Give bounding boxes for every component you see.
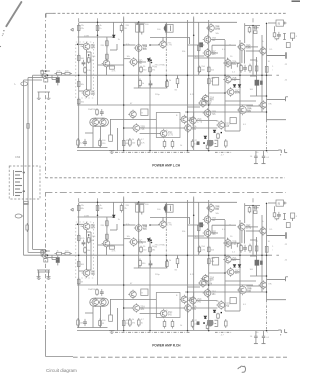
resistor R26 L (208, 77, 211, 86)
resistor R18 R (139, 259, 142, 268)
capacitor C17 below terminal R (277, 212, 281, 219)
resistor R34 R (99, 319, 102, 328)
bracket component G L (215, 139, 218, 141)
resistor R2 L (96, 24, 99, 33)
transistor Q10 driver R (159, 309, 167, 318)
wire column 13 R (261, 215, 263, 292)
capacitor C8 bracket R (236, 243, 238, 247)
wire companion input L (46, 77, 58, 79)
wire bottom supply rail L (77, 150, 279, 152)
resistor R13 L (106, 39, 109, 48)
page number squiggle body (240, 366, 245, 372)
wire link ae R (110, 229, 117, 231)
ferrite bead L1 (21, 82, 28, 86)
component TH1 thermal R (230, 298, 236, 304)
component dark small L (197, 141, 200, 145)
wire link w R (225, 310, 240, 312)
dual transistor Q27 right L (98, 118, 106, 127)
wire link e L (150, 44, 159, 46)
wire x117 R (117, 308, 119, 331)
wire x198 R (198, 202, 200, 255)
resistor R13b R (106, 232, 109, 241)
resistor R8 L (77, 54, 80, 63)
resistor R41 below rail R (177, 255, 179, 258)
node input junction R (47, 254, 49, 256)
wire cluster rail L (245, 25, 260, 27)
wire column 1 R (78, 203, 80, 328)
node CN3 pin dot upper (23, 172, 25, 174)
wire link q L (246, 105, 260, 107)
wire link k L (140, 133, 161, 135)
ground centre R (109, 329, 115, 331)
transistor Q5 L (134, 43, 142, 52)
capacitor C3 plates L (164, 25, 167, 32)
node Q2 base dot R (77, 224, 79, 226)
transistor Q23 R (226, 267, 234, 276)
diode D1 bias L (147, 59, 150, 62)
bracket cluster top right R (284, 214, 286, 220)
capacitor C12 zobel R (263, 331, 265, 337)
wire input horizontal 1 (24, 79, 43, 81)
wire link i R (124, 307, 133, 309)
component K1 box L (141, 109, 148, 115)
transistor Q23 L (226, 87, 234, 96)
wire pair through CN3 down 2 (27, 166, 29, 252)
svg-text:1775: 1775 (138, 243, 144, 245)
component TH1 thermal L (230, 118, 236, 124)
junction dots R (78, 254, 80, 256)
transistor Q15 R (203, 288, 211, 297)
resistor R35 L (197, 44, 200, 53)
wire link e R (150, 224, 159, 226)
dual transistor Q27 package L (90, 118, 109, 126)
resistor R15 R (122, 319, 125, 328)
wire output bus dash-dot L (266, 120, 268, 151)
capacitor C8 R (240, 244, 243, 253)
wire column 11 R (239, 220, 241, 293)
transistor Q1 L (206, 23, 214, 32)
transistor Q15 L (203, 108, 211, 117)
L.CH board frame top border (53, 12, 287, 14)
wire shielded pair vertical 2 (27, 78, 29, 166)
wire y58 L (194, 57, 225, 59)
svg-text:1775: 1775 (197, 121, 203, 123)
R.CH board frame bottom border solid part (45, 355, 73, 357)
diode D7 L (204, 136, 207, 139)
resistor R21 L (138, 138, 141, 147)
pen mark top-left corner (6, 2, 21, 26)
wire to right terminal R (267, 299, 287, 301)
resistor R6 input L (63, 72, 72, 75)
output terminal bracket L (267, 99, 286, 101)
terminal marks right L (278, 149, 281, 151)
capacitor C3 L (165, 24, 173, 32)
wire into R channel 2 (28, 251, 46, 253)
wire rail V+ segment a L (78, 36, 114, 38)
ground centre L (109, 149, 115, 151)
wire link af R (241, 231, 243, 243)
transistor Q16 R (188, 296, 196, 305)
diode D7 R (204, 316, 207, 319)
shield box input stage R (76, 222, 94, 278)
transistor Q26 output L (259, 100, 267, 109)
ground symbol left 1 (37, 275, 41, 278)
resistor R40 below terminal R (274, 206, 276, 211)
wire link l R (165, 202, 167, 226)
capacitor C3 plates R (164, 205, 167, 212)
wire companion input R (46, 257, 58, 259)
transistor Q1 R (206, 203, 214, 212)
resistor R32 above dual L (96, 108, 99, 116)
capacitor C2 R (140, 205, 144, 213)
transistor Q6 R (129, 237, 137, 246)
transistor Q26 output R (259, 280, 267, 289)
transistor Q19 L (203, 48, 211, 57)
capacitor C14 above dual L (100, 109, 104, 116)
wire mid rail stub R (276, 254, 279, 256)
component VR1 L (109, 135, 113, 141)
input filter parts R (41, 250, 44, 255)
transistor Q28 filled blob L (207, 140, 214, 147)
transistor Q20 R (223, 238, 231, 247)
capacitor C5 input coupling L (55, 72, 64, 75)
transistor Q9 L (132, 123, 140, 132)
wire column 5 R (149, 237, 151, 330)
capacitor C5 input coupling R (55, 252, 64, 255)
diode D9 dark L (113, 35, 116, 38)
transistor Q21 L (237, 42, 245, 51)
wire link s R (191, 307, 217, 309)
capacitor C7 L (149, 80, 153, 87)
wire pair through CN3 down 3 (32, 166, 34, 249)
diode D6 R (238, 265, 241, 268)
wire dual left leg L (92, 126, 94, 147)
wire link m L (188, 44, 205, 46)
resistor R38 R (217, 313, 220, 320)
wire to right terminal L (267, 119, 287, 121)
resistor R41 below rail L (177, 75, 179, 78)
capacitor C3 R (165, 204, 173, 212)
wire Q21 emitter R (243, 230, 245, 244)
wire column 2 L (97, 22, 99, 75)
resistor R37 L (171, 140, 174, 149)
transistor Q2 diff pair L (82, 42, 90, 51)
wire column 4 R (138, 202, 140, 268)
capacitor C1 R (136, 205, 140, 213)
capacitor C16 dark L (199, 42, 203, 47)
resistor R34 L (99, 139, 102, 148)
resistor R13b L (106, 52, 109, 61)
capacitor C10 L (243, 65, 247, 72)
input jack J1 L (43, 74, 48, 79)
wire cluster rail R (245, 205, 260, 207)
connector CN3 box (9, 166, 40, 199)
wire x198 L (198, 22, 200, 75)
wire top supply rail R (79, 201, 237, 203)
capacitor C17 below terminal L (277, 32, 281, 39)
pen mark dots (0, 30, 5, 47)
ground bus bar (37, 269, 50, 271)
wire rail V+ segment b L (212, 44, 236, 46)
ground input shield R (38, 271, 51, 273)
connector CN3 pin list bracket (13, 170, 15, 196)
resistor R5 L (254, 31, 257, 34)
diode D10 L (213, 130, 216, 133)
transistor Q8 R (128, 290, 136, 299)
dual transistor Q27 left R (91, 298, 99, 307)
wire link ag R (246, 226, 258, 228)
ground bus legs (38, 270, 40, 275)
diode D6 L (238, 85, 241, 88)
wire output rail L (250, 95, 267, 97)
resistor R17 emitter L (149, 66, 152, 74)
wire link f L (134, 87, 167, 89)
svg-text:Circuit diagram: Circuit diagram (46, 368, 77, 373)
capacitor C8 L (240, 64, 243, 73)
resistor R16 emitter R (140, 246, 143, 254)
transistor Q5 R (134, 223, 142, 232)
wire column 9 L (208, 20, 210, 150)
resistor R29 small R (265, 246, 268, 252)
wire link y R (188, 286, 201, 288)
capacitor C1 L (136, 25, 140, 33)
wire link k R (140, 313, 161, 315)
transistor Q6 L (129, 57, 137, 66)
transistor Q3 diff pair R (82, 268, 90, 277)
resistor R23 L (191, 139, 194, 148)
resistor R4 L (248, 26, 251, 33)
capacitor bracket L (135, 22, 145, 24)
wire link b L (86, 50, 88, 90)
capacitor C15 shunt L (56, 77, 60, 83)
wire Q21 riser R (244, 203, 246, 223)
wire dash-dot mid bottom L (115, 151, 190, 153)
wire link z L (110, 119, 112, 131)
wire mid rail stub L (276, 74, 279, 76)
resistor R10 L (87, 56, 90, 63)
wire link u R (250, 239, 257, 241)
wire column 15 R (256, 237, 258, 276)
L.CH board frame left border (44, 14, 46, 178)
capacitor C16 dark R (199, 222, 203, 227)
capacitor C11 zobel L (255, 151, 257, 157)
ground input shield L (38, 91, 51, 93)
wire column 6 L (165, 22, 167, 33)
wire output bus column L (266, 23, 268, 120)
transistor Q3 diff pair L (82, 88, 90, 97)
output terminal bracket R (267, 279, 286, 281)
transistor Q17 R (183, 303, 191, 312)
wire column 5 L (149, 57, 151, 150)
wire link q R (246, 285, 260, 287)
resistor R11 R (84, 246, 87, 253)
wire link d R (124, 224, 136, 226)
wire link x R (209, 272, 225, 274)
capacitor C7 R (149, 260, 153, 267)
output terminal bracket R (284, 202, 286, 205)
capacitor C4 L (252, 26, 258, 30)
resistor R4 R (248, 206, 251, 213)
wire y58 R (194, 237, 225, 239)
wire bottom supply rail R (77, 330, 279, 332)
output terminal box R (276, 200, 284, 206)
ferrite bead L2 (15, 214, 22, 218)
transistor Q28 filled blob R (207, 320, 214, 327)
resistor R33 L (77, 138, 80, 147)
wire link ag L (246, 46, 258, 48)
transistor Q11 driver R (180, 295, 188, 304)
resistor R6 input R (63, 252, 72, 255)
dual transistor Q27 package R (90, 298, 109, 306)
wire y45 to 150 R (142, 224, 147, 226)
output terminal bracket L (284, 22, 286, 25)
resistor R22 L (206, 144, 209, 149)
wire link m R (188, 224, 205, 226)
wire column 6 R (165, 202, 167, 213)
wire link j R (110, 298, 156, 300)
supply stubs R (78, 198, 80, 202)
capacitor C6 L (82, 60, 86, 67)
bracket component G R (215, 319, 218, 321)
wire link l L (165, 22, 167, 46)
wire link ai L (193, 112, 195, 117)
wire input horizontal 3 (33, 74, 46, 76)
component on wire small (27, 124, 29, 129)
node VAS dot R (151, 242, 153, 244)
transistor Q10 driver L (159, 129, 167, 138)
component dark small R (197, 321, 200, 325)
transistor Q4 R (102, 239, 110, 248)
svg-text:TH: TH (216, 121, 219, 123)
node CN3 pin dot lower (23, 190, 25, 192)
wire column 8 R (193, 197, 195, 331)
transistor Q2 diff pair R (82, 222, 90, 231)
resistor R14 VAS load L (110, 66, 115, 69)
capacitor C2 L (140, 25, 144, 33)
ground symbol right 1 (47, 275, 51, 278)
svg-text:D1.: D1. (270, 229, 274, 231)
wire x117 L (117, 128, 119, 151)
transistor Q13 driver R (237, 285, 246, 295)
wire link z R (110, 299, 112, 311)
component dark output bias L (255, 80, 260, 86)
transistor Q12 R (216, 300, 224, 309)
wire link d L (124, 44, 136, 46)
node diff emitter dot R (88, 234, 90, 236)
ferrite bead L2 lead (22, 215, 24, 217)
svg-text:2SA798: 2SA798 (88, 288, 96, 291)
wire link y L (188, 106, 201, 108)
wire link s L (191, 127, 217, 129)
wire column 13 L (261, 35, 263, 112)
resistor R20 R (129, 318, 132, 327)
diode D5 R (233, 265, 236, 268)
wire link i L (124, 127, 133, 129)
wire column 12 L (252, 26, 254, 76)
svg-text:1/2W: 1/2W (84, 36, 89, 38)
resistor R3 L (120, 24, 123, 33)
wire column 11 L (239, 40, 241, 113)
wire link g L (124, 58, 131, 60)
capacitor C4 R (252, 206, 258, 210)
resistor R40 below terminal L (274, 26, 276, 31)
wire column 1 L (78, 23, 80, 148)
resistor R17 emitter R (149, 246, 152, 254)
wire dual left leg R (92, 306, 94, 327)
output terminal bar L (267, 55, 286, 57)
resistor R32 above dual R (96, 288, 99, 296)
dual transistor Q27 left L (91, 118, 99, 127)
R.CH board frame left border (44, 192, 46, 330)
junction dots L (78, 74, 80, 76)
svg-text:(F): (F) (155, 247, 158, 249)
capacitor C14 above dual R (100, 289, 104, 296)
transistor Q24 R (201, 274, 209, 283)
wire link u L (250, 59, 257, 61)
transistor Q25 output L (258, 46, 266, 55)
wire column 7 L (187, 20, 189, 150)
resistor R21 R (138, 318, 141, 327)
transistor Q11 driver L (180, 115, 188, 124)
transistor Q12 L (216, 120, 224, 129)
resistor R28 emitter 0.22 R (255, 244, 258, 253)
transistor Q14 R (198, 278, 206, 287)
wire column 12 R (252, 206, 254, 256)
transistor Q14 L (198, 98, 206, 107)
wire VAS column L (106, 37, 108, 60)
wire link a R (98, 244, 124, 246)
wire bottom legs rail L (77, 147, 108, 149)
wire lower rail R (77, 284, 253, 286)
resistor R27 box R (213, 258, 219, 266)
wire link af L (241, 51, 243, 63)
wire link j L (110, 118, 156, 120)
resistor R9 L (77, 80, 80, 89)
wire output bus dash-dot R (266, 300, 268, 331)
capacitor C6 R (82, 240, 86, 247)
wire column 4 L (138, 22, 140, 88)
wire R40 C17 join R (275, 218, 279, 220)
wire link t R (246, 230, 260, 232)
wire link ai R (193, 292, 195, 297)
node diff emitter dot L (88, 54, 90, 56)
wire link b R (86, 230, 88, 270)
terminal marks right R (278, 329, 281, 331)
wire Q7 collector R (150, 216, 190, 218)
resistor R29 small L (265, 66, 268, 72)
wire shielded pair vertical 3 (32, 75, 34, 166)
capacitor C10 R (243, 245, 247, 252)
wire link c L (90, 52, 92, 90)
wire mid bias rail L (46, 74, 272, 76)
resistor R1 R (77, 204, 80, 213)
capacitor C13 L (83, 139, 87, 146)
resistor R39 L (225, 139, 228, 148)
resistor R19 L (166, 80, 169, 89)
wire top supply rail L (79, 21, 237, 23)
wire link r R (196, 300, 217, 302)
resistor R33 R (77, 318, 80, 327)
wire link n R (211, 219, 225, 221)
wire dual right leg L (100, 126, 102, 147)
svg-text:1775: 1775 (207, 284, 213, 286)
transistor Q13 driver L (237, 105, 246, 115)
wire into R channel 1 (24, 254, 47, 256)
wire link ac L (51, 75, 53, 79)
diode D1 bias R (147, 239, 150, 242)
corner tick top-right (292, 0, 301, 2)
arrow mark left L (71, 28, 74, 30)
